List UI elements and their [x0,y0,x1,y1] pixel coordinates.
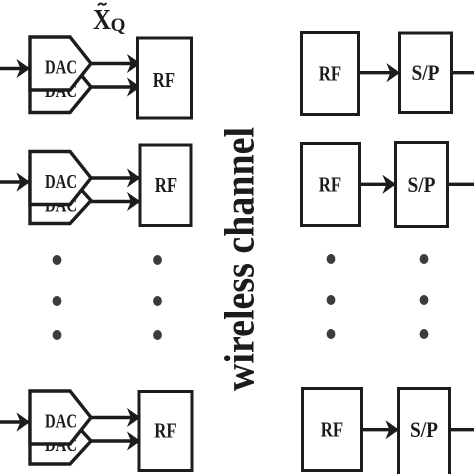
dots column 4 [420,254,429,339]
svg-text:RF: RF [155,173,177,197]
wire RF to S/P row1 [359,71,399,74]
RF block row1 left [138,38,192,118]
wire arrow2 row1 (back DAC to RF) [91,85,139,88]
DAC D1a (front) [30,37,91,90]
wire S/P output row2 [447,183,474,186]
DAC D1b (back) [30,62,91,113]
svg-text:S/P: S/P [408,172,436,197]
DAC D3a (front) [30,391,91,444]
RF block row1 right [302,33,359,115]
RF block row2 right [302,144,360,226]
wire arrow2 row3 [91,439,139,442]
wire input arrow row3 [0,420,29,423]
wire S/P output row1 [450,71,474,74]
dots column 1 [53,255,62,340]
svg-text:S/P: S/P [410,417,438,442]
wire input arrow row1 [0,67,29,70]
svg-text:X: X [93,4,111,36]
S/P block row1 [400,33,452,113]
wire input arrow row2 [0,180,29,183]
svg-text:DAC: DAC [45,411,77,433]
svg-text:RF: RF [154,419,176,443]
RF block row3 left [139,392,192,471]
wire S/P output row3 [449,428,474,431]
wire RF to S/P row3 [362,428,398,431]
svg-text:RF: RF [321,418,343,442]
svg-text:DAC: DAC [45,57,77,79]
dots column 3 [327,254,336,339]
wire arrow2 row2 [91,200,139,203]
DAC D2a (front) [30,152,91,205]
dots column 2 [153,255,162,340]
S/P block row3 [399,389,450,474]
DAC D2b (back) [30,178,91,224]
S/P block row2 [396,143,448,227]
svg-text:RF: RF [319,173,341,197]
svg-text:wireless channel: wireless channel [218,127,264,391]
svg-text:S/P: S/P [412,60,440,85]
wire arrow1 row1 (front DAC to RF) [91,62,139,65]
svg-text:Q: Q [111,15,126,36]
wire RF to S/P row2 [360,183,395,186]
svg-text:RF: RF [319,62,341,86]
DAC D3b (back) [30,418,91,464]
RF block row3 right [303,389,362,471]
RF block row2 left [140,145,191,226]
wire arrow1 row3 [91,416,139,419]
wire arrow1 row2 [91,176,139,179]
svg-text:DAC: DAC [45,171,77,193]
svg-text:RF: RF [153,68,175,92]
